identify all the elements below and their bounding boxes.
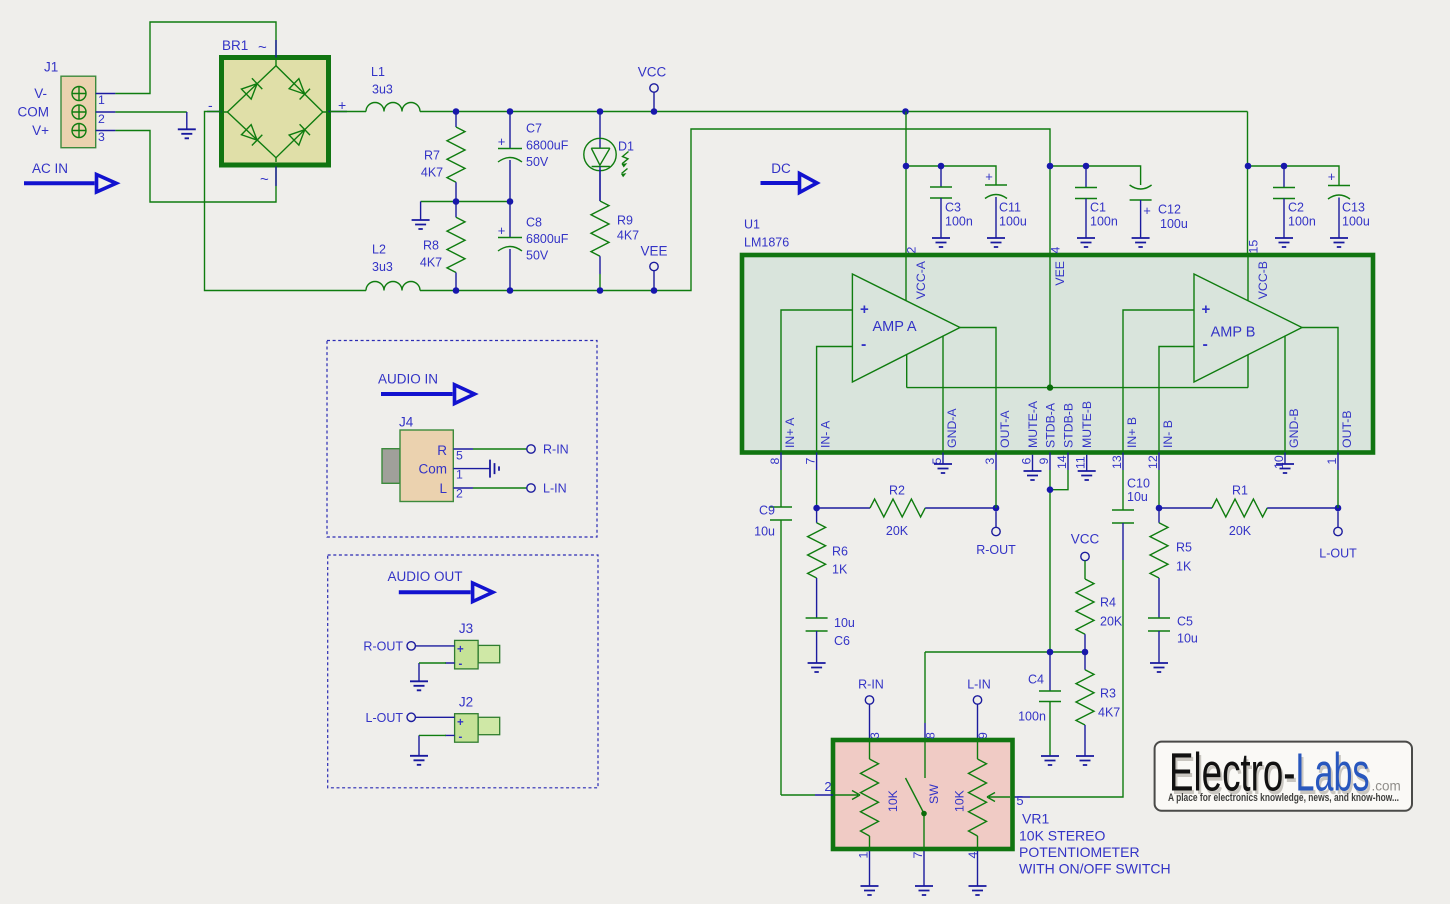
svg-text:R: R bbox=[437, 443, 447, 458]
wire J3 - to ground bbox=[419, 663, 455, 681]
svg-text:4K7: 4K7 bbox=[421, 166, 443, 180]
svg-text:3u3: 3u3 bbox=[372, 260, 393, 274]
svg-text:STDB-A: STDB-A bbox=[1044, 402, 1058, 448]
svg-text:50V: 50V bbox=[526, 249, 549, 263]
op-amp IC U1 LM1876 bbox=[742, 218, 1373, 453]
wire J2 - to ground bbox=[419, 735, 455, 755]
svg-text:14: 14 bbox=[1055, 455, 1069, 469]
wire L-OUT to J2 + bbox=[415, 716, 454, 718]
svg-text:9: 9 bbox=[976, 732, 990, 739]
capacitor C3 100n bbox=[930, 166, 973, 247]
svg-text:100n: 100n bbox=[1018, 710, 1046, 724]
svg-text:IN+ A: IN+ A bbox=[783, 417, 797, 448]
svg-text:5: 5 bbox=[456, 449, 463, 463]
op-amp AMP A bbox=[852, 274, 960, 382]
svg-text:20K: 20K bbox=[886, 524, 909, 538]
svg-text:100n: 100n bbox=[1090, 215, 1118, 229]
wire J1 pin1 to BR1 top bbox=[96, 93, 116, 95]
svg-text:LM1876: LM1876 bbox=[744, 236, 789, 250]
svg-text:2: 2 bbox=[824, 779, 831, 794]
wire U1 pin 1 to L-OUT bbox=[1337, 453, 1339, 471]
AUDIO IN dashed group box bbox=[327, 341, 597, 538]
svg-text:C11: C11 bbox=[999, 201, 1021, 215]
svg-text:V-: V- bbox=[34, 86, 47, 101]
svg-text:MUTE-B: MUTE-B bbox=[1080, 401, 1094, 448]
node L-OUT (terminal) bbox=[1319, 511, 1357, 560]
svg-text:6: 6 bbox=[1020, 458, 1034, 465]
svg-text:R5: R5 bbox=[1176, 541, 1192, 555]
wire J4 pin 1 to signal ground bbox=[453, 468, 490, 470]
svg-text:100u: 100u bbox=[999, 215, 1027, 229]
svg-text:AC IN: AC IN bbox=[32, 161, 68, 176]
svg-text:100n: 100n bbox=[945, 215, 973, 229]
U1 pin 7 IN-A bbox=[804, 347, 853, 465]
svg-text:4: 4 bbox=[1049, 247, 1063, 254]
svg-text:C9: C9 bbox=[759, 504, 775, 518]
wire U1 pin 3 to R-OUT bbox=[995, 453, 997, 471]
svg-text:1K: 1K bbox=[832, 563, 848, 577]
svg-text:R8: R8 bbox=[423, 239, 439, 253]
diode BR1-D4 (lower-right) bbox=[289, 124, 310, 145]
svg-text:C5: C5 bbox=[1177, 615, 1193, 629]
svg-text:15: 15 bbox=[1247, 240, 1261, 254]
resistor R6 1K bbox=[808, 508, 848, 618]
svg-text:BR1: BR1 bbox=[222, 38, 248, 53]
svg-text:2: 2 bbox=[98, 112, 105, 126]
svg-text:6800uF: 6800uF bbox=[526, 139, 569, 153]
svg-text:20K: 20K bbox=[1100, 615, 1123, 629]
capacitor C7 6800uF 50V bbox=[498, 112, 569, 202]
diode BR1-D1 (upper-left) bbox=[241, 78, 262, 99]
svg-text:Com: Com bbox=[418, 462, 447, 477]
svg-text:+: + bbox=[1202, 301, 1211, 318]
ground (VR1 pin 7) bbox=[923, 851, 925, 886]
wire R-OUT to J3 + bbox=[415, 645, 454, 647]
svg-text:+: + bbox=[860, 301, 869, 318]
svg-text:C4: C4 bbox=[1028, 673, 1044, 687]
U1 pin 8 IN+A bbox=[768, 310, 852, 465]
wire J4 pin 2 to L-IN bbox=[453, 487, 473, 489]
svg-text:J3: J3 bbox=[459, 621, 473, 636]
svg-text:OUT-B: OUT-B bbox=[1340, 410, 1354, 448]
ground (J2) bbox=[410, 756, 428, 765]
svg-text:10K: 10K bbox=[886, 789, 900, 812]
svg-text:C8: C8 bbox=[526, 216, 542, 230]
svg-text:OUT-A: OUT-A bbox=[998, 410, 1012, 448]
svg-text:+: + bbox=[498, 223, 506, 238]
svg-text:R2: R2 bbox=[889, 484, 905, 498]
AC IN arrow bbox=[24, 161, 116, 192]
svg-text:3u3: 3u3 bbox=[372, 83, 393, 97]
capacitor C13 100u bbox=[1328, 169, 1370, 247]
svg-text:VCC: VCC bbox=[1071, 532, 1100, 547]
U1 pin 15 VCC-B bbox=[1247, 240, 1271, 301]
wire VEE bypass rail bbox=[1050, 166, 1141, 185]
svg-text:IN+ B: IN+ B bbox=[1125, 417, 1139, 448]
wire VEE rail bbox=[420, 129, 1050, 291]
svg-text:C1: C1 bbox=[1090, 201, 1106, 215]
svg-text:1: 1 bbox=[98, 93, 105, 107]
DC arrow bbox=[761, 161, 818, 193]
svg-text:A place for electronics knowle: A place for electronics knowledge, news,… bbox=[1168, 792, 1399, 804]
svg-text:R-OUT: R-OUT bbox=[363, 639, 403, 653]
svg-text:1: 1 bbox=[857, 852, 871, 859]
op-amp AMP B bbox=[1194, 274, 1302, 382]
diode BR1-D2 (upper-right) bbox=[289, 78, 310, 99]
svg-text:COM: COM bbox=[18, 105, 50, 120]
U1 pin 11 MUTE-B bbox=[1074, 401, 1096, 480]
svg-text:5: 5 bbox=[1016, 793, 1023, 808]
svg-text:J1: J1 bbox=[44, 60, 58, 75]
svg-text:+: + bbox=[1143, 203, 1151, 218]
svg-text:13: 13 bbox=[1110, 455, 1124, 469]
svg-text:3: 3 bbox=[868, 732, 882, 739]
svg-text:AUDIO IN: AUDIO IN bbox=[378, 372, 438, 387]
AUDIO OUT dashed group box bbox=[328, 555, 598, 788]
capacitor C9 10u bbox=[754, 453, 792, 796]
svg-text:VCC-B: VCC-B bbox=[1256, 261, 1270, 299]
svg-text:4K7: 4K7 bbox=[1098, 706, 1120, 720]
wire VCC-A bypass rail bbox=[906, 112, 996, 256]
svg-text:GND-B: GND-B bbox=[1287, 408, 1301, 448]
svg-text:C13: C13 bbox=[1342, 201, 1365, 215]
svg-text:20K: 20K bbox=[1229, 524, 1252, 538]
svg-text:-: - bbox=[1203, 336, 1208, 353]
junction dots on VCC rail bbox=[453, 108, 460, 115]
diode BR1-D3 (lower-left) bbox=[241, 124, 262, 145]
svg-text:1K: 1K bbox=[1176, 560, 1192, 574]
ground (J1 COM) bbox=[178, 129, 196, 138]
svg-text:4K7: 4K7 bbox=[617, 229, 639, 243]
U1 pin 14 STDB-B bbox=[1053, 403, 1076, 490]
wire U1 pin 7 to feedback node bbox=[816, 453, 818, 471]
svg-text:VEE: VEE bbox=[1053, 261, 1067, 286]
svg-text:V+: V+ bbox=[32, 123, 49, 138]
VR1 value text bbox=[1019, 811, 1171, 877]
node VCC (standby divider) bbox=[1071, 532, 1100, 580]
wire J1 pin2 to ground bbox=[96, 111, 116, 113]
svg-text:IN- A: IN- A bbox=[819, 420, 833, 448]
svg-text:4K7: 4K7 bbox=[420, 256, 442, 270]
svg-text:POTENTIOMETER: POTENTIOMETER bbox=[1019, 844, 1140, 860]
svg-text:R-IN: R-IN bbox=[858, 678, 884, 692]
svg-text:100u: 100u bbox=[1342, 215, 1370, 229]
svg-text:3: 3 bbox=[98, 130, 105, 144]
svg-text:R6: R6 bbox=[832, 545, 848, 559]
wire BR1 + to L1 bbox=[330, 111, 366, 113]
svg-text:AUDIO OUT: AUDIO OUT bbox=[387, 569, 462, 584]
potentiometer VR1 bbox=[824, 732, 1023, 859]
VR1 switch SW bbox=[906, 740, 926, 849]
Electro-Labs logo bbox=[1155, 742, 1412, 811]
svg-text:+: + bbox=[985, 169, 993, 184]
capacitor C6 10u bbox=[806, 616, 855, 672]
U1 pin 1 OUT-B bbox=[1302, 328, 1354, 465]
ground (VR1 pin 1) bbox=[869, 851, 871, 886]
svg-text:L-OUT: L-OUT bbox=[366, 711, 404, 725]
svg-text:L-IN: L-IN bbox=[967, 678, 991, 692]
svg-text:10u: 10u bbox=[754, 525, 775, 539]
svg-text:100u: 100u bbox=[1160, 217, 1188, 231]
capacitor C12 100u bbox=[1130, 185, 1188, 247]
node R-IN (terminal at J4) bbox=[527, 445, 535, 453]
ground (VR1 pin 4) bbox=[977, 851, 979, 886]
wire U1 pin 12 to feedback node bbox=[1158, 453, 1160, 471]
ground (J3) bbox=[410, 681, 428, 690]
svg-text:VEE: VEE bbox=[640, 244, 667, 259]
node VEE (terminal) bbox=[640, 244, 667, 291]
connector J3 bbox=[455, 621, 500, 671]
svg-text:100n: 100n bbox=[1288, 215, 1316, 229]
wire J4 pin 5 to R-IN bbox=[453, 448, 473, 450]
node L-IN (terminal at J4) bbox=[527, 484, 535, 492]
svg-text:10u: 10u bbox=[1177, 632, 1198, 646]
inductor L1 3u3 bbox=[366, 65, 420, 112]
svg-text:8: 8 bbox=[924, 732, 938, 739]
svg-text:R7: R7 bbox=[424, 149, 440, 163]
svg-text:R1: R1 bbox=[1232, 484, 1248, 498]
svg-text:L: L bbox=[439, 481, 447, 496]
svg-text:3: 3 bbox=[983, 458, 997, 465]
svg-text:J4: J4 bbox=[399, 415, 414, 430]
svg-text:10: 10 bbox=[1272, 455, 1286, 469]
svg-text:+: + bbox=[338, 97, 346, 113]
VR1 pot B 10K bbox=[977, 740, 979, 759]
svg-text:AMP B: AMP B bbox=[1211, 325, 1256, 341]
U1 pin 10 GND-B bbox=[1272, 336, 1301, 474]
svg-text:R9: R9 bbox=[617, 214, 633, 228]
svg-text:DC: DC bbox=[771, 161, 791, 176]
U1 pin 2 VCC-A bbox=[905, 247, 929, 301]
svg-text:10u: 10u bbox=[834, 616, 855, 630]
capacitor C4 100n bbox=[1018, 652, 1061, 765]
resistor R8 4K7 bbox=[420, 202, 465, 291]
svg-text:R-IN: R-IN bbox=[543, 443, 569, 457]
svg-text:R-OUT: R-OUT bbox=[976, 543, 1016, 557]
capacitor C8 6800uF 50V bbox=[498, 202, 569, 291]
svg-text:10K STEREO: 10K STEREO bbox=[1019, 828, 1105, 844]
svg-text:VCC-A: VCC-A bbox=[914, 260, 928, 299]
resistor R2 20K bbox=[817, 484, 996, 539]
resistor R3 4K7 bbox=[1076, 652, 1120, 765]
svg-text:7: 7 bbox=[804, 458, 818, 465]
resistor R7 4K7 bbox=[421, 112, 465, 202]
U1 pin 13 IN+B bbox=[1110, 310, 1194, 469]
svg-text:-: - bbox=[861, 336, 866, 353]
U1 pin 5 GND-A bbox=[930, 336, 959, 474]
svg-text:-: - bbox=[459, 732, 463, 744]
svg-text:IN- B: IN- B bbox=[1161, 420, 1175, 448]
svg-text:+: + bbox=[1328, 169, 1336, 184]
svg-text:12: 12 bbox=[1146, 455, 1160, 469]
svg-text:C7: C7 bbox=[526, 122, 542, 136]
U1 pin 3 OUT-A bbox=[960, 328, 1012, 465]
svg-text:D1: D1 bbox=[618, 140, 634, 154]
wire BR1 - to VEE rail and L2 bbox=[205, 112, 367, 291]
LED D1 bbox=[584, 112, 634, 202]
svg-text:C10: C10 bbox=[1127, 477, 1150, 491]
resistor R9 4K7 bbox=[591, 170, 639, 291]
svg-text:1: 1 bbox=[1325, 458, 1339, 465]
svg-text:~: ~ bbox=[260, 171, 269, 188]
svg-text:~: ~ bbox=[258, 39, 267, 56]
U1 pin 12 IN-B bbox=[1146, 347, 1194, 470]
wire VCC rail bbox=[420, 111, 1248, 113]
U1 pin 9 STDB-A bbox=[1037, 402, 1058, 464]
resistor R4 20K bbox=[1076, 579, 1123, 652]
connector J2 bbox=[455, 695, 500, 744]
wire J1 pin3 to BR1 bottom bbox=[96, 130, 116, 132]
svg-text:GND-A: GND-A bbox=[945, 408, 959, 448]
svg-text:C3: C3 bbox=[945, 201, 961, 215]
node L-IN (terminal) bbox=[967, 678, 991, 741]
svg-text:J2: J2 bbox=[459, 695, 473, 710]
svg-text:1: 1 bbox=[456, 468, 463, 482]
svg-text:VR1: VR1 bbox=[1022, 811, 1049, 827]
capacitor C11 100u bbox=[985, 169, 1027, 247]
svg-text:L1: L1 bbox=[371, 65, 385, 79]
U1 pin 6 MUTE-A bbox=[1020, 400, 1042, 480]
capacitor C1 100n bbox=[1075, 166, 1118, 247]
AUDIO OUT arrow bbox=[387, 569, 492, 602]
wire mid rail bbox=[421, 201, 510, 203]
connector J1 bbox=[18, 60, 106, 148]
svg-text:8: 8 bbox=[768, 458, 782, 465]
svg-text:+: + bbox=[498, 134, 506, 149]
svg-text:+: + bbox=[457, 717, 464, 729]
svg-text:AMP A: AMP A bbox=[872, 319, 916, 335]
svg-text:MUTE-A: MUTE-A bbox=[1026, 400, 1040, 448]
resistor R1 20K bbox=[1159, 484, 1338, 539]
svg-text:10u: 10u bbox=[1127, 490, 1148, 504]
svg-text:WITH ON/OFF SWITCH: WITH ON/OFF SWITCH bbox=[1019, 861, 1171, 877]
node VCC (terminal) bbox=[638, 65, 667, 112]
svg-text:L-OUT: L-OUT bbox=[1319, 547, 1357, 561]
svg-text:R3: R3 bbox=[1100, 687, 1116, 701]
svg-text:9: 9 bbox=[1037, 458, 1051, 465]
svg-text:VCC: VCC bbox=[638, 65, 667, 80]
capacitor C10 10u bbox=[1013, 453, 1150, 798]
svg-text:R4: R4 bbox=[1100, 596, 1116, 610]
inductor L2 3u3 bbox=[366, 243, 420, 291]
svg-text:U1: U1 bbox=[744, 218, 760, 232]
svg-text:L2: L2 bbox=[372, 243, 386, 257]
capacitor C5 10u bbox=[1148, 615, 1198, 673]
ground (supply midpoint) bbox=[420, 202, 422, 221]
svg-text:C6: C6 bbox=[834, 634, 850, 648]
capacitor C2 100n bbox=[1273, 166, 1316, 247]
wire standby node bbox=[925, 470, 1085, 723]
connector J4 bbox=[382, 415, 463, 502]
node R-IN (terminal) bbox=[858, 678, 884, 741]
svg-text:SW: SW bbox=[927, 784, 941, 804]
wire VCC-B bypass rail bbox=[1248, 112, 1340, 256]
svg-text:STDB-B: STDB-B bbox=[1062, 403, 1076, 448]
svg-text:-: - bbox=[459, 659, 463, 671]
svg-text:C2: C2 bbox=[1288, 201, 1304, 215]
svg-text:6800uF: 6800uF bbox=[526, 232, 569, 246]
svg-text:7: 7 bbox=[911, 852, 925, 859]
AUDIO IN arrow bbox=[378, 372, 475, 404]
svg-text:L-IN: L-IN bbox=[543, 482, 567, 496]
svg-text:+: + bbox=[457, 644, 464, 656]
VR1 pot A 10K bbox=[869, 740, 871, 759]
svg-text:C12: C12 bbox=[1158, 203, 1181, 217]
U1 pin 4 VEE bbox=[907, 247, 1248, 391]
svg-text:10K: 10K bbox=[953, 789, 967, 812]
wire C9 to VR1 pin 2 bbox=[781, 794, 815, 796]
svg-text:11: 11 bbox=[1074, 456, 1088, 469]
bridge rectifier BR1 bbox=[207, 38, 347, 188]
node R-OUT (terminal) bbox=[976, 511, 1016, 557]
svg-text:-: - bbox=[208, 97, 213, 113]
resistor R5 1K bbox=[1150, 508, 1192, 618]
svg-text:50V: 50V bbox=[526, 155, 549, 169]
